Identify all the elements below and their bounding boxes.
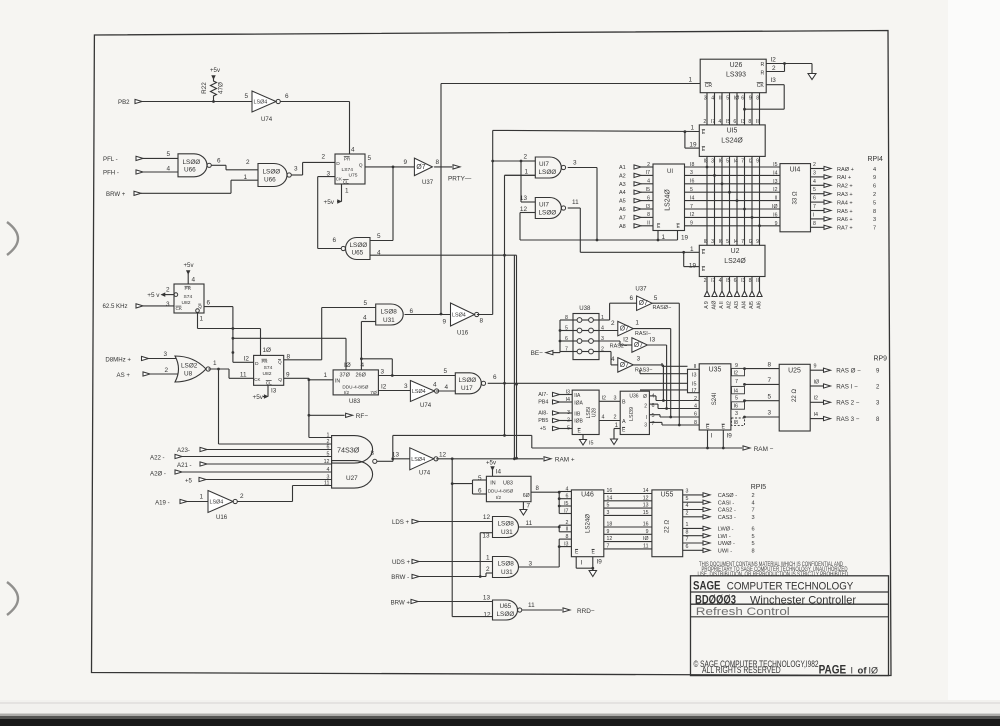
svg-text:E: E: [722, 425, 726, 431]
buffer U2 LS240: [689, 245, 765, 276]
svg-text:4: 4: [647, 179, 650, 185]
svg-text:9: 9: [756, 239, 759, 245]
svg-text:+5v: +5v: [486, 460, 497, 467]
svg-text:7: 7: [607, 544, 610, 550]
svg-text:Ø7: Ø7: [416, 164, 425, 171]
svg-text:CAS2 -: CAS2 -: [718, 508, 736, 514]
svg-text:I: I: [813, 212, 814, 218]
svg-text:I3: I3: [741, 119, 745, 125]
ground U26: [808, 74, 816, 80]
wire D8MHz to U8: [149, 351, 177, 359]
node PB5 input: [538, 418, 572, 424]
decoder U36 LS139: [620, 391, 654, 434]
svg-text:I5: I5: [726, 278, 730, 284]
node PFH- input: [103, 170, 143, 177]
svg-text:RA4 +: RA4 +: [837, 200, 853, 206]
svg-text:6: 6: [207, 300, 211, 307]
svg-text:3: 3: [873, 217, 876, 223]
svg-text:I7: I7: [646, 170, 650, 176]
wire U31b out to U46: [519, 526, 559, 528]
wire RAS0- to U35: [652, 303, 681, 426]
svg-text:A21 -: A21 -: [177, 462, 192, 469]
wire U28 out 4 to U36 A: [599, 415, 620, 421]
svg-text:RA7 +: RA7 +: [837, 226, 853, 232]
title sheet name: [696, 606, 790, 618]
svg-text:Q: Q: [278, 377, 282, 383]
svg-text:22 Ω: 22 Ω: [664, 520, 671, 533]
node BRW- input: [391, 566, 492, 581]
svg-text:LSØ2: LSØ2: [181, 363, 198, 370]
svg-text:13: 13: [483, 594, 491, 601]
delay line U83 DDU-4-8150: [333, 362, 384, 405]
wire U82a Qbar to U82b D: [204, 307, 254, 363]
svg-text:IIA: IIA: [574, 393, 581, 399]
node A22- input: [150, 454, 332, 461]
nand U17 gate A: [535, 157, 565, 178]
svg-text:RAI +: RAI +: [837, 175, 851, 181]
svg-text:I3: I3: [650, 337, 656, 344]
wire U38 left bus to BE-: [531, 305, 604, 360]
svg-text:CR: CR: [705, 83, 713, 89]
svg-text:3: 3: [686, 489, 689, 495]
svg-text:5: 5: [363, 300, 367, 307]
wire U46 enable ground: [576, 557, 602, 577]
node BRW+ input: [106, 191, 141, 198]
svg-text:LSØØ: LSØØ: [459, 377, 477, 384]
svg-text:I3: I3: [692, 373, 697, 379]
svg-text:62.5 KHz: 62.5 KHz: [103, 303, 128, 310]
wire U17 out long to U35 pin box: [488, 382, 688, 385]
svg-text:1: 1: [635, 320, 639, 327]
wire y240 enable row to U1: [520, 239, 678, 242]
svg-text:U31: U31: [383, 317, 395, 324]
svg-text:CL: CL: [343, 180, 349, 185]
svg-text:2: 2: [813, 162, 816, 168]
svg-text:LWI -: LWI -: [718, 534, 731, 540]
svg-text:2: 2: [772, 65, 776, 72]
svg-text:2: 2: [694, 396, 697, 402]
svg-text:5: 5: [327, 451, 330, 457]
svg-text:1: 1: [524, 169, 528, 176]
wire RRD- out: [522, 602, 595, 615]
resistor R22 470: [201, 79, 225, 102]
counter U26 LS393: [700, 59, 766, 92]
svg-text:CK: CK: [336, 177, 342, 182]
svg-text:U26: U26: [730, 62, 743, 69]
svg-text:A II: A II: [719, 301, 725, 309]
svg-text:9: 9: [646, 529, 649, 535]
svg-text:UWØ -: UWØ -: [718, 541, 735, 547]
svg-text:5: 5: [368, 155, 372, 162]
svg-text:6Ø: 6Ø: [523, 493, 530, 499]
svg-text:I4: I4: [496, 469, 502, 476]
svg-text:CAS3 -: CAS3 -: [718, 515, 736, 521]
svg-text:I/2: I/2: [496, 495, 502, 501]
nand U17 gate main: [455, 373, 497, 394]
delay line U83 second half: [478, 475, 531, 502]
svg-text:13: 13: [392, 452, 400, 459]
svg-text:CK: CK: [176, 306, 183, 311]
flip-flop U82 S74 second half: [244, 354, 291, 395]
svg-text:3: 3: [294, 166, 298, 173]
nor U8 LS02: [175, 356, 210, 382]
node A21- input: [177, 462, 332, 469]
svg-text:I9: I9: [727, 433, 733, 440]
wire U35 enables to RAM-: [708, 430, 733, 448]
svg-text:7Ø: 7Ø: [370, 390, 377, 396]
svg-text:BRW -: BRW -: [391, 574, 409, 581]
wire U8 out to U82b CK: [208, 360, 253, 379]
svg-text:18: 18: [607, 522, 613, 528]
svg-text:5: 5: [726, 159, 729, 165]
svg-text:I6: I6: [734, 404, 739, 410]
wire U17b tie vertical: [520, 161, 535, 202]
resistor pack U14 33ohm: [780, 164, 811, 232]
wire latch vertical x504: [503, 175, 535, 437]
svg-text:LS24Ø: LS24Ø: [724, 258, 746, 265]
svg-text:AI5: AI5: [749, 301, 755, 309]
svg-text:6: 6: [332, 237, 336, 244]
svg-text:RAM +: RAM +: [555, 456, 575, 463]
svg-text:Q: Q: [198, 304, 202, 309]
svg-text:5: 5: [813, 187, 816, 193]
faint fold line near bottom: [0, 702, 1000, 704]
svg-text:6: 6: [734, 278, 737, 284]
svg-text:19: 19: [681, 235, 689, 242]
svg-text:9: 9: [690, 221, 693, 227]
svg-text:LSØØ: LSØØ: [539, 169, 557, 176]
svg-text:BRW +: BRW +: [391, 600, 411, 607]
svg-text:2: 2: [686, 510, 689, 516]
svg-text:3: 3: [711, 239, 714, 245]
svg-text:1: 1: [486, 554, 490, 561]
svg-text:4: 4: [718, 119, 721, 125]
svg-text:4: 4: [686, 503, 689, 509]
hole punch top: [7, 222, 18, 255]
svg-text:3: 3: [381, 369, 385, 376]
svg-text:9: 9: [442, 319, 446, 326]
svg-text:U82: U82: [182, 300, 191, 306]
svg-text:4: 4: [652, 394, 655, 400]
svg-text:8: 8: [287, 354, 291, 361]
svg-text:2: 2: [246, 159, 250, 166]
svg-text:5: 5: [767, 393, 771, 400]
svg-text:8: 8: [686, 529, 689, 535]
svg-text:12: 12: [607, 536, 613, 542]
svg-text:IØA: IØA: [574, 400, 583, 406]
svg-text:LS24Ø: LS24Ø: [665, 189, 672, 211]
and U31 LS08 gate C: [493, 557, 533, 578]
svg-text:LSØ8: LSØ8: [498, 521, 515, 528]
svg-text:U46: U46: [581, 492, 594, 499]
svg-text:I2: I2: [814, 396, 819, 402]
confidentiality note: [698, 561, 850, 578]
wire U28 ground: [580, 435, 594, 447]
svg-text:II: II: [756, 278, 759, 284]
svg-text:15: 15: [643, 510, 649, 516]
svg-text:8: 8: [756, 96, 759, 102]
svg-text:13: 13: [643, 503, 649, 509]
wire U83 pin12 to U74c: [378, 383, 410, 391]
svg-text:12: 12: [483, 612, 491, 619]
svg-text:LSØØ: LSØØ: [350, 242, 368, 249]
svg-text:5: 5: [873, 200, 876, 206]
svg-text:LSØ4: LSØ4: [254, 100, 268, 106]
svg-text:1: 1: [327, 432, 330, 438]
wire U1 to U14 address rows: [685, 162, 781, 227]
svg-text:D: D: [336, 161, 340, 167]
svg-text:UI: UI: [667, 168, 673, 175]
wire x514 from U65-4 to RAM+: [513, 255, 515, 458]
svg-text:I/2: I/2: [344, 390, 350, 396]
svg-text:2: 2: [240, 493, 244, 500]
svg-text:PFH -: PFH -: [103, 170, 119, 177]
node A23- input: [177, 447, 332, 454]
wire U16 out up to U17 latch area: [477, 130, 699, 314]
svg-text:I3: I3: [773, 179, 777, 185]
node PB2 input: [118, 99, 142, 106]
wire U83b ground pin7: [520, 502, 531, 515]
svg-text:2: 2: [611, 320, 615, 327]
wire U38 to RAS1 buffer: [599, 330, 618, 332]
svg-text:USE, DISTRIBUTION, OR REPRODUC: USE, DISTRIBUTION, OR REPRODUCTION IS ST…: [698, 571, 850, 578]
svg-text:U27: U27: [346, 475, 358, 482]
svg-text:RAS3−: RAS3−: [635, 368, 653, 374]
wire U74 out to U75 PR: [280, 102, 349, 155]
svg-text:LSØØ: LSØØ: [183, 159, 201, 166]
wire U2 E19 branch: [684, 252, 700, 266]
node A1-A8 inputs: [619, 162, 653, 230]
svg-text:1: 1: [199, 494, 203, 501]
svg-text:I7: I7: [692, 388, 697, 394]
svg-text:5: 5: [244, 93, 248, 100]
svg-text:S24I: S24I: [711, 392, 718, 405]
svg-text:3: 3: [813, 170, 816, 176]
svg-text:B: B: [622, 400, 626, 406]
svg-text:D: D: [255, 361, 259, 367]
svg-text:I5: I5: [726, 119, 730, 125]
svg-text:IØ: IØ: [869, 666, 879, 676]
svg-text:I5: I5: [564, 501, 568, 507]
svg-text:LSØ4: LSØ4: [411, 457, 425, 463]
svg-text:I5: I5: [646, 187, 650, 193]
svg-text:PRTY—: PRTY—: [448, 176, 472, 183]
svg-text:RASØ−: RASØ−: [653, 305, 672, 311]
wire U65 pin4 net to x516: [370, 254, 518, 460]
svg-text:7: 7: [813, 204, 816, 210]
node RAS outputs RP9: [810, 356, 887, 424]
svg-text:AS +: AS +: [117, 372, 131, 379]
svg-text:RA6 +: RA6 +: [837, 217, 853, 223]
wire AS+ to U8: [150, 367, 178, 374]
svg-text:RAS I −: RAS I −: [836, 383, 858, 390]
svg-text:4: 4: [351, 147, 355, 154]
svg-text:9: 9: [814, 364, 817, 370]
svg-text:+5 v: +5 v: [147, 292, 160, 299]
svg-text:12: 12: [643, 495, 649, 501]
svg-text:2: 2: [752, 493, 755, 499]
svg-text:5: 5: [652, 413, 655, 419]
svg-text:PFL -: PFL -: [103, 156, 118, 163]
svg-text:6: 6: [478, 487, 482, 494]
svg-text:U55: U55: [661, 492, 674, 499]
svg-text:A22 -: A22 -: [150, 455, 165, 462]
svg-text:LS74: LS74: [342, 167, 354, 173]
wire U83b out pin8 to U46 bus: [531, 485, 559, 492]
svg-text:E: E: [702, 267, 706, 273]
svg-text:A2Ø -: A2Ø -: [150, 471, 166, 478]
svg-text:I8: I8: [690, 162, 694, 168]
svg-text:RPI4: RPI4: [868, 156, 883, 163]
svg-text:8: 8: [813, 221, 816, 227]
svg-text:Ø7: Ø7: [620, 362, 629, 369]
svg-text:+5v: +5v: [184, 262, 195, 269]
wire RAS1- to U35: [633, 329, 672, 419]
svg-text:2: 2: [164, 367, 168, 374]
svg-text:14: 14: [607, 495, 613, 501]
inverter U74 gate B: [410, 448, 447, 477]
svg-text:A: A: [622, 419, 626, 425]
svg-text:UI5: UI5: [727, 128, 738, 135]
svg-text:5: 5: [377, 233, 381, 240]
buffer U37 07 RAS1: [611, 320, 639, 336]
svg-text:U65: U65: [500, 603, 512, 610]
title drawing number: [695, 594, 856, 606]
svg-text:IØ: IØ: [643, 536, 648, 542]
svg-text:Ø7: Ø7: [639, 300, 648, 307]
multiplexer U28 LS151: [566, 390, 600, 435]
svg-text:Ø7: Ø7: [620, 326, 629, 333]
svg-text:13: 13: [520, 195, 528, 202]
svg-text:RAS Ø −: RAS Ø −: [836, 368, 861, 375]
svg-text:7: 7: [690, 204, 693, 210]
power +5v for IN U83: [486, 460, 501, 477]
svg-text:E: E: [702, 250, 706, 256]
node CAS/LW/UW outputs RP15: [683, 484, 767, 555]
svg-text:5: 5: [166, 151, 170, 158]
svg-text:A1: A1: [619, 165, 626, 171]
svg-text:I3: I3: [771, 77, 777, 84]
inverter U74 gate C: [410, 381, 438, 410]
svg-text:12: 12: [324, 459, 330, 465]
svg-text:14: 14: [643, 488, 649, 494]
wire PB2 to U74 inverter: [142, 101, 252, 103]
svg-text:U31: U31: [501, 569, 513, 576]
svg-text:5: 5: [752, 541, 755, 547]
svg-text:4: 4: [166, 166, 170, 173]
svg-text:Ø: Ø: [643, 394, 647, 400]
svg-text:LSØ4: LSØ4: [210, 500, 224, 506]
inverter U16 gate B for A19: [155, 494, 208, 507]
svg-text:AI4: AI4: [742, 301, 748, 309]
svg-text:1: 1: [688, 77, 692, 84]
wire U36 outputs to U35: [649, 396, 699, 425]
svg-text:A3: A3: [619, 182, 626, 188]
wire into U17 latch inputs: [491, 154, 535, 163]
wire PFL- to U66: [143, 151, 178, 158]
and U31 LS08 gate B: [493, 517, 533, 538]
svg-text:I4: I4: [814, 412, 819, 418]
node LDS+ input: [392, 514, 493, 526]
svg-text:II: II: [694, 364, 697, 370]
svg-text:6: 6: [566, 494, 569, 500]
svg-text:II: II: [775, 196, 778, 202]
svg-text:1: 1: [690, 125, 694, 132]
svg-text:of: of: [858, 666, 868, 677]
svg-text:3: 3: [644, 423, 647, 429]
title company name: [693, 580, 854, 592]
svg-text:CK: CK: [757, 83, 765, 89]
svg-text:RA2 +: RA2 +: [837, 184, 853, 190]
svg-text:I2: I2: [773, 187, 777, 193]
svg-text:1: 1: [345, 188, 349, 195]
svg-text:I3: I3: [566, 390, 571, 396]
svg-text:6: 6: [752, 527, 755, 533]
wire U66a out to U66b: [212, 158, 259, 170]
svg-text:I3: I3: [564, 541, 568, 547]
svg-text:U83: U83: [503, 480, 513, 486]
power +5v for U82a PR: [184, 262, 196, 284]
svg-text:LDS +: LDS +: [392, 519, 410, 526]
svg-text:7: 7: [735, 379, 738, 385]
svg-text:1: 1: [213, 360, 217, 367]
svg-text:6: 6: [694, 412, 697, 418]
svg-text:11: 11: [240, 372, 247, 379]
wire U82b Qbar to U31 pin5: [284, 300, 376, 360]
wire U46 input bus: [558, 486, 572, 567]
wire long vertical x452 down to U65b: [452, 459, 492, 617]
svg-text:IIB: IIB: [574, 411, 581, 417]
svg-text:9: 9: [607, 529, 610, 535]
svg-text:13: 13: [482, 533, 490, 540]
svg-text:A7: A7: [619, 215, 626, 221]
svg-text:4: 4: [327, 467, 330, 473]
svg-text:II: II: [647, 221, 650, 227]
svg-text:IN: IN: [335, 379, 340, 385]
svg-text:RAM −: RAM −: [754, 446, 774, 453]
wire U26 CK loop: [743, 77, 784, 111]
wire U74c out to U17 pin4: [436, 384, 455, 391]
svg-text:6: 6: [873, 184, 876, 190]
svg-text:7: 7: [741, 159, 744, 165]
title page number: [819, 665, 878, 677]
svg-text:A23-: A23-: [177, 447, 190, 454]
inverter U16 gate A: [442, 303, 483, 337]
svg-text:U65: U65: [352, 250, 364, 257]
buffer U37 07 RAS2: [623, 337, 655, 353]
svg-text:Q: Q: [278, 360, 282, 365]
svg-text:A8: A8: [619, 224, 626, 230]
svg-text:4: 4: [873, 167, 876, 173]
svg-text:U74: U74: [261, 116, 273, 123]
svg-text:4: 4: [433, 382, 437, 389]
wire RAM- line: [532, 446, 774, 453]
svg-text:2: 2: [704, 278, 707, 284]
svg-text:PR: PR: [185, 286, 192, 291]
node +5 input: [185, 477, 332, 484]
node RA0-RA7 outputs RP14: [772, 156, 883, 232]
svg-text:I3: I3: [646, 204, 650, 210]
svg-text:BDØØØ3: BDØØØ3: [695, 594, 736, 606]
svg-text:11: 11: [572, 199, 579, 206]
wire PRTY- out: [434, 165, 472, 183]
svg-text:RRD−: RRD−: [577, 608, 595, 615]
svg-text:11: 11: [526, 520, 533, 527]
wire U17b pin12: [520, 206, 535, 240]
svg-text:IØ: IØ: [772, 204, 777, 210]
svg-text:8: 8: [436, 159, 440, 166]
node A20- input: [150, 470, 332, 478]
